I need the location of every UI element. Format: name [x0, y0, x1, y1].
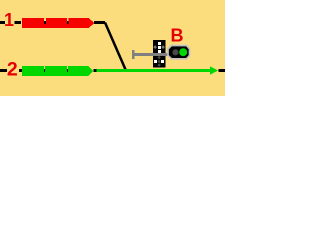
svg-text:1: 1 — [4, 10, 14, 30]
svg-text:2: 2 — [7, 59, 18, 81]
svg-text:B: B — [171, 26, 184, 46]
